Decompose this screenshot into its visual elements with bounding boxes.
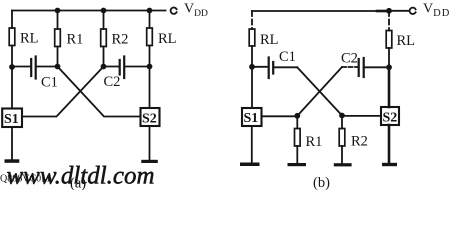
wire: right column thick to S2 (b) <box>388 67 391 107</box>
switch S1 (a) box <box>2 109 22 128</box>
switch S2 (a) box <box>141 108 160 126</box>
wire: RL right column upper (a) <box>149 11 151 29</box>
svg-text:R1: R1 <box>306 134 323 150</box>
wire: left column to S1 (a) <box>11 46 13 109</box>
node: C2 right junction (b) <box>386 64 392 70</box>
ground (a, under S2) <box>141 160 158 163</box>
svg-text:(b): (b) <box>313 175 330 190</box>
wire: R1 column upper (a) <box>57 11 59 30</box>
svg-text:RL: RL <box>20 31 39 47</box>
wire: S1 gate wire to R1 node (b) <box>262 115 298 117</box>
ground (b, under S1) <box>240 163 260 167</box>
svg-text:S1: S1 <box>4 112 19 127</box>
wire: diagonal C2 to R1 node (b) <box>297 67 342 116</box>
svg-text:R1: R1 <box>67 32 84 48</box>
capacitor C1 (b) <box>252 66 268 68</box>
wire: R2 column upper (a) <box>103 11 105 30</box>
wire: left column to S1 (b) <box>251 46 253 108</box>
wire: S1 to ground (a) <box>11 127 13 159</box>
ground (b, under R2) <box>334 163 352 166</box>
wire: diagonal R1 node to S2 gate (a) <box>58 67 141 117</box>
svg-text:S2: S2 <box>383 111 398 126</box>
switch S1 (b) box <box>242 108 262 126</box>
svg-text:S2: S2 <box>142 112 157 127</box>
node: rail junction above R2 <box>101 8 107 14</box>
ground (b, under R1) <box>288 163 307 166</box>
resistor R2 (a) <box>101 29 107 47</box>
resistor R2 (b) <box>339 129 345 147</box>
resistor RL (b, left) <box>249 29 255 46</box>
node: C1 left junction (a) <box>9 64 15 70</box>
resistor R1 (a) <box>55 29 61 47</box>
terminal Vdd (b) open circle <box>410 8 416 14</box>
resistor RL (b, right) <box>386 31 392 49</box>
resistor RL (a, right) <box>147 28 153 46</box>
wire: R1 bottom (a) <box>57 47 59 67</box>
wire: left column upper (a) <box>11 11 13 29</box>
wire: top rail (b) <box>252 10 377 12</box>
svg-text:C1: C1 <box>41 75 58 91</box>
svg-text:www.dltdl.com: www.dltdl.com <box>7 160 155 189</box>
wire: diagonal R2 node to S1 gate (a) <box>22 67 104 117</box>
wire: R2 node to S2 gate (b) <box>342 115 381 117</box>
svg-text:R2: R2 <box>112 32 129 48</box>
wire: RL right column to S2 (a) <box>149 46 151 109</box>
node: R2/C2 junction (a) <box>101 64 107 70</box>
svg-text:C2: C2 <box>104 74 121 90</box>
wire: R1 column (b) <box>296 116 298 129</box>
wire: S2 to ground thick (b) <box>388 125 391 163</box>
terminal Vdd (a) open circle <box>171 8 177 14</box>
node: R2 top junction (b) <box>339 113 345 119</box>
svg-text:R2: R2 <box>351 134 368 150</box>
resistor RL (a, left) <box>9 28 15 46</box>
node: C1 left junction (b) <box>249 64 255 70</box>
node: R1 top junction (b) <box>294 113 300 119</box>
wire: R2 bottom (a) <box>103 47 105 67</box>
wire: left column upper dashed (b) <box>251 11 253 29</box>
wire: top rail (a) <box>12 10 166 12</box>
svg-text:RL: RL <box>260 32 279 48</box>
resistor R1 (b) <box>295 129 301 147</box>
svg-text:C2: C2 <box>341 51 358 67</box>
svg-text:RL: RL <box>158 31 177 47</box>
node: rail junction above R1 <box>55 8 61 14</box>
svg-text:S1: S1 <box>244 111 259 126</box>
capacitor C1 (a) <box>12 66 31 68</box>
capacitor C2 (b) <box>342 66 358 68</box>
wire: R1 to ground (b) <box>296 146 298 163</box>
capacitor C2 (a) <box>104 66 120 68</box>
ground (a, under S1) <box>5 159 20 163</box>
wire: R2 to ground (b) <box>341 146 343 163</box>
ground (b, under S2) <box>382 163 397 166</box>
wire: R2 column (b) <box>341 116 343 129</box>
node: R1/C1 junction (a) <box>55 64 61 70</box>
svg-text:C1: C1 <box>279 49 296 65</box>
wire: S2 to ground (a) <box>149 126 151 160</box>
svg-text:RL: RL <box>397 33 416 49</box>
wire: diagonal C1 to R2 node (b) <box>297 67 342 115</box>
node: rail junction above RL right <box>147 8 153 14</box>
wire: S1 to ground (b) <box>251 126 253 163</box>
switch S2 (b) box <box>381 107 399 125</box>
wire: RL right bottom (b) <box>388 48 390 67</box>
node: rail junction above RL right (b) <box>386 8 392 14</box>
node: C2 right junction (a) <box>147 64 153 70</box>
wire: right column upper dashed (b) <box>388 11 390 31</box>
